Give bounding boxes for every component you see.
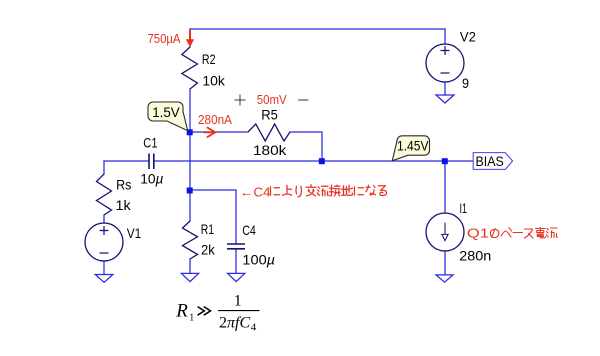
svg-text:1: 1: [234, 293, 242, 310]
svg-text:2πfC: 2πfC: [219, 315, 250, 332]
svg-text:BIAS: BIAS: [476, 153, 504, 169]
svg-text:I1: I1: [460, 200, 468, 216]
svg-text:280nA: 280nA: [198, 112, 232, 127]
svg-text:10µ: 10µ: [140, 170, 163, 186]
svg-text:V1: V1: [127, 225, 142, 241]
svg-text:C1: C1: [143, 135, 157, 151]
svg-text:C4: C4: [242, 222, 256, 238]
svg-text:9: 9: [462, 75, 469, 91]
svg-text:1.45V: 1.45V: [397, 137, 429, 153]
svg-text:50mV: 50mV: [257, 92, 287, 107]
svg-text:V2: V2: [460, 29, 476, 45]
svg-text:100µ: 100µ: [242, 252, 275, 268]
svg-text:4: 4: [251, 322, 257, 334]
svg-text:10k: 10k: [202, 72, 225, 88]
svg-text:1.5V: 1.5V: [152, 104, 180, 120]
svg-text:Q1: Q1: [467, 225, 489, 240]
svg-text:750µA: 750µA: [148, 31, 181, 46]
svg-text:R5: R5: [261, 106, 278, 122]
svg-text:280n: 280n: [459, 248, 491, 264]
svg-text:R2: R2: [202, 51, 216, 67]
svg-text:R: R: [175, 301, 188, 322]
svg-text:1: 1: [189, 312, 194, 323]
svg-text:Rs: Rs: [116, 177, 131, 193]
svg-text:R1: R1: [201, 221, 214, 237]
svg-text:180k: 180k: [253, 142, 287, 158]
svg-text:←C4: ←C4: [240, 185, 271, 200]
svg-text:2k: 2k: [201, 241, 216, 257]
svg-text:1k: 1k: [116, 197, 132, 213]
